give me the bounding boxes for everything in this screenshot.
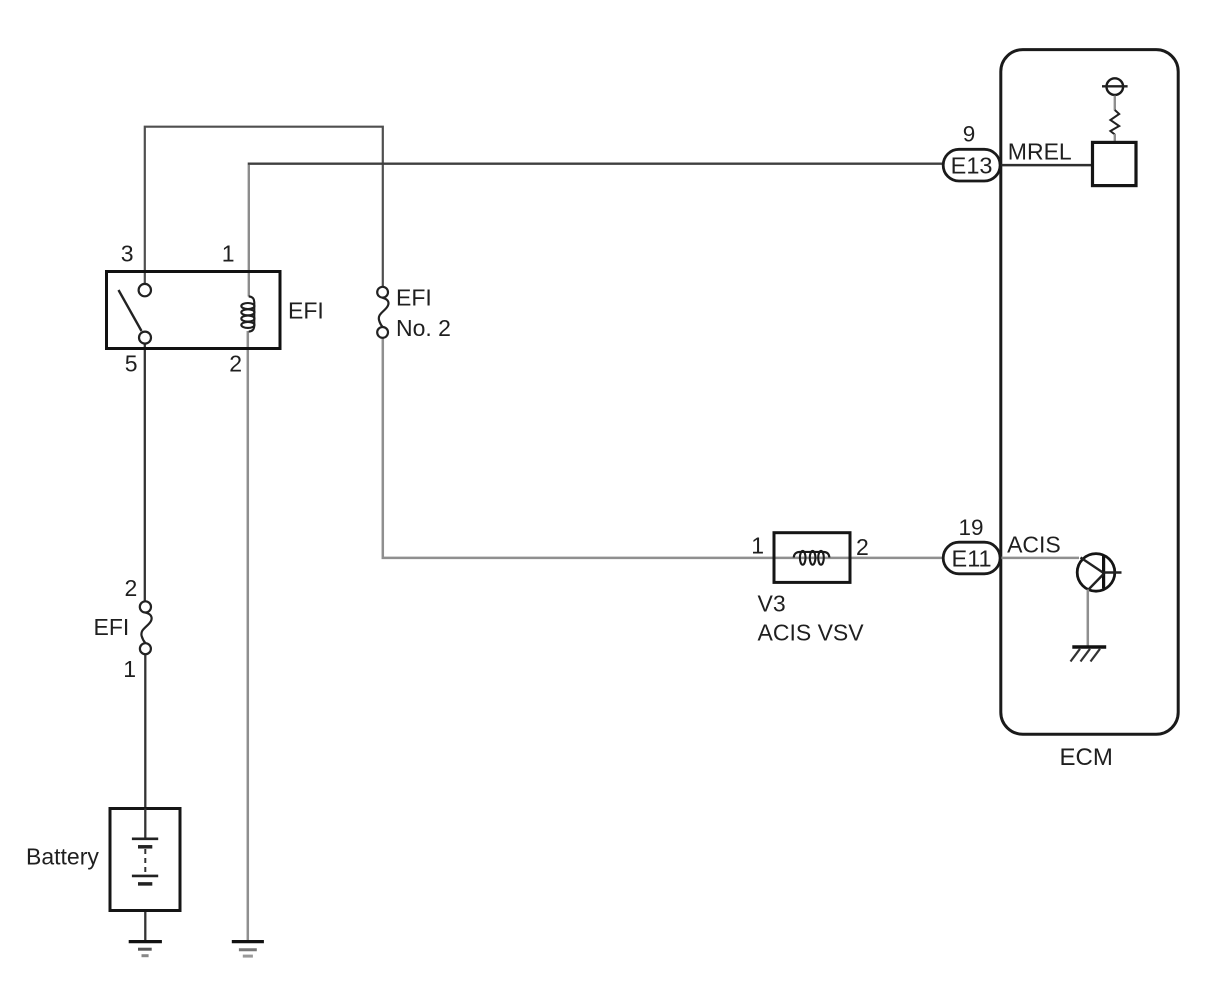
svg-text:EFI: EFI	[396, 285, 432, 311]
resistor in ECM	[1110, 110, 1119, 135]
svg-text:3: 3	[121, 241, 134, 267]
wire MREL vertical leg to relay coil pin 1	[248, 165, 250, 297]
connector E13 pin 9	[943, 149, 1000, 181]
wire top loop from relay pin 3 to EFI No.2 fuse	[145, 127, 383, 288]
svg-text:ACIS VSV: ACIS VSV	[758, 620, 865, 646]
svg-text:2: 2	[125, 575, 138, 601]
VSV coil	[794, 551, 830, 565]
ECM box U1	[1001, 50, 1178, 735]
svg-text:2: 2	[856, 534, 869, 560]
relay EFI box	[107, 272, 281, 349]
svg-text:9: 9	[963, 122, 976, 147]
svg-text:V3: V3	[758, 591, 786, 617]
svg-text:2: 2	[229, 351, 242, 377]
svg-text:ACIS: ACIS	[1007, 532, 1061, 558]
svg-text:EFI: EFI	[94, 614, 130, 640]
wire transistor to chassis ground	[1087, 590, 1090, 647]
svg-text:No. 2: No. 2	[396, 315, 451, 341]
relay switch contact bottom (pin 5)	[139, 332, 151, 344]
ground battery	[129, 942, 162, 956]
chassis ground in ECM	[1071, 647, 1107, 662]
svg-text:E13: E13	[951, 153, 993, 179]
svg-text:E11: E11	[952, 546, 992, 572]
wire ACIS from E11 to transistor	[1000, 557, 1079, 560]
ground relay pin 2	[232, 942, 264, 957]
svg-text:5: 5	[125, 351, 138, 377]
battery	[110, 809, 180, 911]
svg-text:Battery: Battery	[26, 844, 99, 870]
relay switch contact top (pin 3)	[139, 284, 151, 296]
wire power circle to resistor	[1114, 96, 1116, 111]
wire resistor to MREL box	[1114, 134, 1116, 143]
relay coil	[241, 296, 254, 331]
wire battery to ground	[144, 884, 146, 942]
svg-text:19: 19	[958, 515, 983, 540]
svg-text:ECM: ECM	[1060, 744, 1113, 771]
svg-text:1: 1	[751, 533, 764, 559]
relay switch arm	[119, 290, 142, 331]
wire EFI fuse to battery	[144, 654, 146, 839]
wire EFI No.2 fuse down and right to V3 VSV and E11	[383, 338, 945, 558]
svg-text:MREL: MREL	[1008, 139, 1072, 165]
svg-text:1: 1	[123, 656, 136, 682]
transistor Q1 in ECM	[1077, 554, 1121, 592]
wire E13 to MREL internal box	[1000, 164, 1093, 167]
fuse EFI No.2	[377, 287, 388, 338]
power terminal circle in ECM	[1102, 78, 1128, 95]
connector E11 pin 19	[943, 542, 1000, 574]
svg-text:EFI: EFI	[288, 298, 324, 324]
wire relay pin 5 down to EFI fuse	[144, 344, 146, 602]
svg-text:1: 1	[222, 241, 235, 267]
V3 ACIS VSV box	[774, 533, 850, 583]
fuse EFI (main)	[140, 601, 152, 654]
wire relay pin 2 to ground	[247, 331, 250, 941]
MREL driver box in ECM	[1093, 142, 1137, 185]
wire MREL horizontal to E13	[248, 163, 945, 165]
